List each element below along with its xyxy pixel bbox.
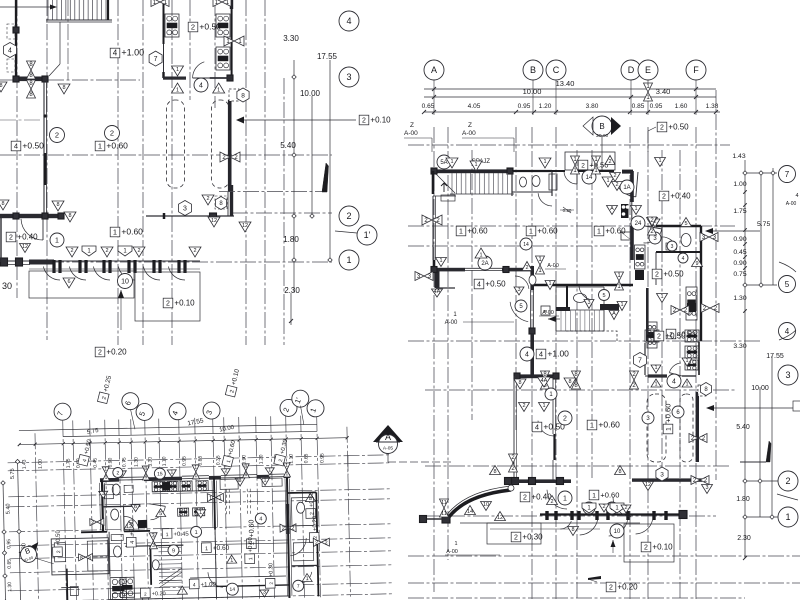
svg-text:2A: 2A	[481, 261, 488, 267]
svg-text:3.30: 3.30	[283, 34, 299, 43]
svg-text:12: 12	[22, 244, 28, 250]
svg-text:1.43: 1.43	[732, 153, 745, 160]
svg-text:7: 7	[181, 589, 184, 595]
svg-text:1: 1	[205, 546, 208, 552]
svg-text:1: 1	[654, 382, 657, 388]
svg-text:2: 2	[563, 416, 567, 423]
svg-text:1: 1	[194, 465, 197, 471]
svg-text:4: 4	[795, 193, 798, 199]
svg-text:1: 1	[285, 463, 288, 469]
svg-text:4A: 4A	[541, 378, 548, 384]
svg-text:4: 4	[199, 83, 203, 90]
svg-text:4: 4	[113, 49, 118, 58]
svg-text:1: 1	[450, 159, 453, 165]
svg-text:4: 4	[346, 16, 351, 26]
svg-text:+0.40: +0.40	[17, 233, 38, 242]
svg-text:24: 24	[635, 221, 642, 227]
svg-text:3: 3	[660, 471, 664, 478]
svg-text:12: 12	[242, 223, 248, 229]
svg-text:4: 4	[259, 516, 262, 522]
svg-text:1.00: 1.00	[733, 181, 746, 188]
svg-text:+0.60: +0.60	[467, 227, 488, 236]
svg-text:0.90: 0.90	[733, 236, 746, 243]
svg-text:0.95: 0.95	[319, 453, 325, 463]
svg-text:1.30: 1.30	[134, 457, 140, 467]
svg-text:1: 1	[194, 473, 197, 479]
svg-text:2: 2	[550, 499, 553, 505]
svg-text:A-00: A-00	[786, 201, 797, 207]
svg-text:1: 1	[529, 229, 533, 236]
svg-text:1: 1	[176, 67, 179, 73]
svg-text:4: 4	[672, 379, 676, 386]
svg-text:+0.45: +0.45	[173, 532, 189, 538]
svg-text:A-00: A-00	[404, 130, 418, 137]
svg-text:1: 1	[113, 228, 117, 237]
svg-text:9: 9	[172, 548, 175, 554]
svg-text:8: 8	[241, 92, 245, 99]
svg-text:13.40: 13.40	[556, 79, 575, 88]
svg-text:+0.60: +0.60	[664, 404, 673, 423]
svg-text:1: 1	[620, 302, 623, 308]
svg-text:5: 5	[785, 280, 790, 289]
svg-text:7: 7	[785, 170, 790, 179]
svg-text:1: 1	[634, 206, 637, 212]
svg-text:1': 1'	[364, 230, 371, 240]
svg-text:2: 2	[346, 211, 351, 221]
svg-text:+0.10: +0.10	[174, 299, 195, 308]
svg-text:4: 4	[535, 423, 539, 432]
svg-text:3: 3	[263, 589, 266, 595]
svg-text:8: 8	[518, 380, 521, 386]
svg-text:1: 1	[306, 576, 309, 582]
svg-text:2: 2	[785, 476, 790, 486]
svg-text:2: 2	[282, 526, 285, 532]
svg-text:2: 2	[602, 504, 605, 510]
svg-text:2: 2	[660, 125, 664, 132]
svg-text:4: 4	[130, 541, 136, 544]
svg-text:1: 1	[785, 512, 790, 522]
svg-text:14: 14	[586, 175, 593, 181]
svg-text:12: 12	[126, 524, 132, 530]
svg-text:3: 3	[517, 287, 520, 293]
svg-text:+0.50: +0.50	[485, 280, 506, 289]
svg-text:1: 1	[217, 88, 220, 94]
svg-text:1.60: 1.60	[675, 103, 688, 110]
svg-text:+0.50: +0.50	[665, 332, 686, 341]
svg-text:A-00: A-00	[445, 320, 458, 326]
svg-text:2: 2	[655, 272, 659, 279]
svg-text:+0.60: +0.60	[213, 545, 230, 552]
svg-text:8: 8	[309, 496, 312, 502]
svg-text:1: 1	[55, 238, 59, 245]
svg-text:1: 1	[230, 558, 233, 564]
svg-text:8: 8	[68, 213, 71, 219]
svg-text:2: 2	[522, 403, 525, 409]
svg-text:+0.30: +0.30	[522, 533, 543, 542]
svg-text:0.75: 0.75	[122, 457, 128, 467]
svg-text:Z: Z	[468, 122, 472, 129]
svg-text:8: 8	[568, 379, 571, 385]
svg-text:D: D	[628, 65, 635, 75]
svg-text:3.80: 3.80	[586, 103, 599, 110]
svg-text:11: 11	[441, 500, 447, 506]
svg-text:7: 7	[154, 56, 158, 63]
svg-text:12: 12	[497, 515, 503, 521]
svg-text:1.38: 1.38	[706, 103, 719, 110]
svg-text:A-00: A-00	[446, 549, 458, 555]
svg-text:4A: 4A	[434, 289, 441, 295]
svg-text:10: 10	[121, 279, 129, 286]
svg-text:A: A	[431, 65, 437, 75]
svg-text:+1.00: +1.00	[121, 48, 144, 58]
svg-text:1: 1	[666, 427, 673, 431]
svg-text:C: C	[553, 65, 560, 75]
svg-text:2: 2	[110, 129, 114, 138]
svg-text:17.55: 17.55	[317, 52, 338, 61]
svg-text:B: B	[530, 65, 536, 75]
svg-text:8: 8	[0, 83, 3, 89]
svg-text:+0.20: +0.20	[106, 348, 127, 357]
svg-text:8: 8	[244, 464, 247, 470]
svg-text:8: 8	[238, 478, 241, 484]
svg-text:0.85: 0.85	[632, 103, 645, 110]
svg-text:2.30: 2.30	[284, 286, 300, 295]
svg-text:3: 3	[587, 300, 590, 306]
svg-text:8: 8	[244, 472, 247, 478]
svg-text:2: 2	[9, 235, 13, 242]
svg-text:F: F	[693, 65, 699, 75]
svg-text:12: 12	[211, 218, 217, 224]
svg-text:1: 1	[654, 365, 657, 371]
svg-text:5.75: 5.75	[10, 468, 16, 479]
svg-text:2: 2	[309, 512, 315, 515]
svg-text:1: 1	[176, 88, 179, 94]
svg-text:3: 3	[785, 370, 790, 380]
svg-text:4: 4	[14, 142, 18, 151]
svg-text:0.85: 0.85	[197, 455, 203, 465]
svg-text:4: 4	[8, 48, 12, 55]
svg-text:1.10: 1.10	[288, 454, 294, 464]
svg-text:1A: 1A	[623, 185, 630, 191]
svg-text:15: 15	[157, 471, 163, 477]
svg-text:5: 5	[602, 293, 605, 299]
svg-text:2: 2	[362, 118, 366, 125]
svg-text:3: 3	[671, 244, 674, 250]
svg-text:2: 2	[191, 23, 195, 32]
svg-text:12: 12	[645, 482, 651, 488]
svg-text:8: 8	[144, 466, 147, 472]
svg-text:3: 3	[152, 543, 155, 549]
svg-text:1: 1	[685, 358, 688, 364]
svg-text:1.20: 1.20	[258, 454, 264, 464]
svg-text:3: 3	[183, 206, 187, 213]
svg-text:1: 1	[248, 557, 254, 560]
svg-text:1: 1	[166, 532, 169, 538]
svg-text:11: 11	[441, 511, 447, 517]
svg-text:A-00: A-00	[542, 310, 554, 316]
svg-text:9: 9	[695, 261, 698, 267]
svg-text:2: 2	[624, 505, 627, 511]
svg-text:1.75: 1.75	[733, 208, 746, 215]
svg-text:2: 2	[523, 495, 527, 502]
svg-text:+0.60: +0.60	[537, 227, 558, 236]
svg-text:3: 3	[705, 485, 708, 491]
svg-text:14: 14	[467, 509, 473, 515]
svg-text:1: 1	[590, 421, 594, 430]
svg-text:0.65: 0.65	[422, 103, 435, 110]
svg-text:10: 10	[614, 529, 621, 535]
svg-text:1: 1	[170, 469, 173, 475]
svg-text:2: 2	[644, 545, 648, 552]
svg-text:0.90: 0.90	[733, 260, 746, 267]
svg-text:1: 1	[543, 159, 546, 165]
svg-text:3.40: 3.40	[656, 87, 671, 96]
svg-text:1: 1	[542, 403, 545, 409]
svg-text:+0.20: +0.20	[617, 583, 638, 592]
svg-text:1: 1	[548, 281, 551, 287]
svg-text:1: 1	[209, 496, 212, 502]
svg-text:10: 10	[483, 502, 489, 508]
svg-text:2: 2	[91, 520, 94, 526]
svg-text:2: 2	[70, 248, 73, 254]
svg-text:0.95: 0.95	[650, 103, 663, 110]
svg-text:2: 2	[609, 585, 613, 592]
svg-text:+0.60: +0.60	[600, 491, 619, 500]
svg-text:+0.50: +0.50	[22, 141, 44, 151]
svg-text:+1.00: +1.00	[547, 349, 569, 359]
svg-text:6: 6	[67, 279, 70, 285]
svg-text:4: 4	[785, 327, 790, 336]
svg-text:2: 2	[55, 131, 59, 140]
svg-text:3: 3	[102, 491, 105, 497]
svg-text:5: 5	[684, 221, 687, 227]
svg-text:1.00: 1.00	[38, 459, 44, 469]
svg-text:0.65: 0.65	[303, 453, 309, 463]
svg-text:+0.50: +0.50	[56, 529, 62, 545]
svg-text:2: 2	[193, 248, 196, 254]
svg-text:2: 2	[525, 265, 528, 271]
svg-text:+0.60: +0.60	[248, 519, 255, 537]
svg-text:2: 2	[116, 470, 119, 476]
svg-text:A: A	[612, 311, 616, 317]
svg-text:1.80: 1.80	[736, 496, 750, 503]
svg-text:+0.60: +0.60	[605, 227, 626, 236]
svg-text:14: 14	[229, 587, 235, 593]
svg-text:8: 8	[56, 202, 59, 208]
svg-text:1: 1	[459, 229, 463, 236]
svg-text:+0.50: +0.50	[199, 22, 221, 32]
svg-text:1: 1	[479, 253, 482, 259]
svg-text:+0.60: +0.60	[106, 141, 128, 151]
svg-text:A: A	[610, 206, 614, 212]
svg-text:2: 2	[615, 182, 618, 188]
svg-text:+0.20: +0.20	[152, 591, 166, 597]
svg-text:B: B	[599, 122, 604, 131]
svg-text:0.35: 0.35	[215, 455, 221, 465]
svg-text:1: 1	[268, 467, 271, 473]
svg-text:1: 1	[104, 467, 107, 473]
svg-text:2: 2	[56, 550, 62, 553]
svg-text:A-00: A-00	[462, 130, 476, 137]
svg-text:+0.10: +0.10	[652, 543, 673, 552]
svg-text:2: 2	[608, 159, 611, 165]
svg-text:1: 1	[685, 382, 688, 388]
svg-text:A: A	[385, 432, 391, 442]
svg-text:10.00: 10.00	[751, 385, 769, 392]
svg-text:0.85: 0.85	[7, 559, 13, 569]
svg-text:2: 2	[166, 301, 170, 308]
svg-text:8: 8	[1, 201, 4, 207]
svg-text:10.00: 10.00	[300, 89, 321, 98]
svg-text:2.30: 2.30	[737, 535, 751, 542]
svg-text:3: 3	[346, 72, 351, 82]
svg-text:1.10: 1.10	[161, 456, 167, 466]
svg-text:1: 1	[346, 255, 351, 265]
svg-text:+1.00: +1.00	[201, 582, 217, 588]
svg-text:2: 2	[325, 540, 328, 546]
svg-text:+0.50: +0.50	[589, 161, 608, 170]
svg-text:0.95: 0.95	[181, 456, 187, 466]
svg-text:+0.20: +0.20	[312, 515, 318, 531]
svg-text:8: 8	[144, 474, 147, 480]
svg-text:2: 2	[613, 173, 616, 179]
svg-text:1.80: 1.80	[283, 235, 299, 244]
svg-text:5: 5	[159, 511, 162, 517]
svg-text:A-05: A-05	[383, 446, 393, 452]
svg-text:30: 30	[2, 281, 12, 291]
svg-text:1: 1	[195, 530, 198, 536]
svg-text:+0.40: +0.40	[670, 192, 691, 201]
svg-text:5.40: 5.40	[736, 424, 750, 431]
svg-text:1: 1	[658, 158, 661, 164]
svg-text:Z: Z	[410, 122, 414, 129]
svg-text:0.45: 0.45	[93, 458, 99, 468]
svg-text:5.40: 5.40	[5, 503, 11, 514]
svg-text:8: 8	[618, 469, 621, 475]
svg-text:4: 4	[477, 282, 481, 289]
svg-text:1: 1	[597, 229, 601, 236]
svg-text:+0.10: +0.10	[370, 116, 391, 125]
svg-text:5.75: 5.75	[757, 221, 770, 228]
svg-text:1.43: 1.43	[22, 459, 28, 469]
svg-text:1: 1	[98, 142, 102, 151]
svg-text:0.95: 0.95	[518, 103, 531, 110]
svg-text:4: 4	[525, 352, 529, 359]
svg-text:+0.50: +0.50	[668, 123, 689, 132]
svg-text:5.40: 5.40	[280, 141, 296, 150]
svg-text:4: 4	[193, 583, 196, 589]
svg-text:8: 8	[80, 555, 83, 561]
svg-text:10.00: 10.00	[523, 87, 542, 96]
svg-text:2: 2	[224, 468, 227, 474]
svg-text:7: 7	[297, 584, 300, 590]
svg-text:1: 1	[454, 541, 457, 547]
svg-text:1.30: 1.30	[733, 295, 746, 302]
svg-text:0.90: 0.90	[108, 457, 114, 467]
svg-text:17.55: 17.55	[766, 353, 784, 360]
svg-text:2: 2	[137, 248, 140, 254]
svg-text:2: 2	[315, 540, 318, 546]
svg-text:8: 8	[571, 527, 574, 533]
svg-text:1: 1	[606, 178, 609, 184]
svg-text:8: 8	[493, 469, 496, 475]
svg-text:+0.50: +0.50	[663, 270, 684, 279]
svg-text:6: 6	[134, 504, 137, 510]
svg-text:2: 2	[581, 163, 585, 170]
svg-text:A-00: A-00	[547, 263, 559, 269]
svg-text:5A: 5A	[440, 160, 447, 166]
svg-text:1: 1	[592, 493, 596, 500]
svg-text:3.30: 3.30	[148, 457, 154, 467]
svg-text:1.30: 1.30	[7, 582, 13, 592]
svg-text:7: 7	[638, 358, 642, 365]
svg-text:1: 1	[219, 495, 222, 501]
svg-text:3: 3	[152, 533, 155, 539]
svg-text:+0.60: +0.60	[121, 227, 143, 237]
svg-text:4.05: 4.05	[468, 103, 481, 110]
svg-text:8: 8	[88, 555, 91, 561]
svg-text:3.30: 3.30	[733, 343, 746, 350]
svg-text:1.20: 1.20	[539, 103, 552, 110]
svg-text:0.95: 0.95	[6, 539, 12, 549]
svg-text:+0.60: +0.60	[248, 536, 254, 552]
svg-text:8: 8	[62, 85, 65, 91]
svg-text:1: 1	[660, 294, 663, 300]
svg-text:4: 4	[682, 256, 685, 262]
svg-text:4: 4	[539, 350, 543, 359]
svg-text:2: 2	[662, 194, 666, 201]
svg-text:1: 1	[439, 258, 442, 264]
svg-text:1: 1	[474, 162, 477, 168]
svg-text:1.75: 1.75	[66, 458, 72, 468]
svg-text:14: 14	[523, 242, 529, 248]
svg-text:1: 1	[199, 510, 202, 516]
svg-text:1: 1	[563, 496, 567, 503]
svg-text:2: 2	[206, 196, 209, 202]
svg-text:2: 2	[291, 526, 294, 532]
svg-text:1: 1	[285, 471, 288, 477]
svg-text:1: 1	[104, 475, 107, 481]
svg-text:2: 2	[105, 248, 108, 254]
svg-text:2: 2	[657, 334, 661, 341]
svg-text:0.75: 0.75	[733, 271, 746, 278]
svg-text:2: 2	[98, 350, 102, 357]
svg-text:+0.60: +0.60	[598, 420, 620, 430]
svg-text:+0.30: +0.30	[268, 563, 274, 577]
svg-text:0.45: 0.45	[733, 249, 746, 256]
svg-text:E: E	[645, 65, 651, 75]
svg-text:2: 2	[514, 535, 518, 542]
